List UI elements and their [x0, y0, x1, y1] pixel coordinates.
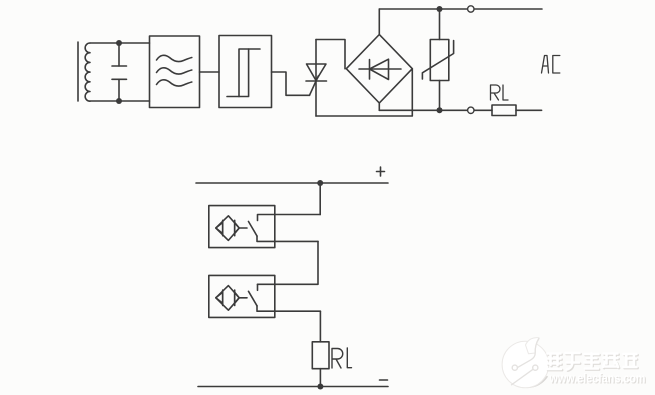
sensor S1 box [209, 206, 275, 248]
wire coil top to filter [90, 42, 150, 44]
junction top rail varistor [437, 6, 443, 12]
terminal top [468, 6, 474, 12]
watermark chinese text [547, 353, 637, 370]
load resistor RL bottom [312, 342, 329, 369]
transformer secondary coil L1 [85, 43, 90, 101]
gate lead [310, 76, 319, 95]
schmitt trigger block U2 [219, 36, 272, 108]
hysteresis symbol [239, 49, 260, 97]
junction node bottom [116, 98, 122, 104]
capacitor C1 [118, 43, 120, 66]
wire sensor2 to resistor [319, 311, 321, 342]
junction bottom rail varistor [437, 107, 443, 113]
wire schmitt to gate [272, 72, 310, 95]
transformer core bar [77, 42, 79, 101]
wire thyristor cathode to bridge right vertex [316, 69, 412, 116]
varistor RV [439, 9, 441, 40]
sensor S2 switch [239, 297, 247, 299]
cathode lead [315, 81, 317, 116]
plus rail [196, 182, 388, 184]
junction node top [116, 40, 122, 46]
label AC [542, 56, 560, 74]
minus sign [380, 379, 388, 381]
thyristor V1 [315, 40, 317, 82]
junction minus rail [317, 384, 323, 390]
label RL bottom [332, 348, 352, 368]
wire filter to schmitt [200, 71, 220, 73]
wire coil bottom to filter [90, 100, 150, 102]
watermark logo [502, 338, 549, 388]
filter block U1 [150, 36, 200, 108]
wire sensor1 to sensor2 [258, 241, 319, 284]
sensor S2 diamond [216, 286, 239, 311]
bridge rectifier B1 [346, 35, 412, 104]
sensor S1 diamond [216, 216, 239, 241]
wire rail to sensor1 [319, 183, 321, 215]
wire thyristor anode to bridge left vertex [316, 40, 345, 69]
filter wave 3 [157, 80, 192, 86]
svg-text:www.elecfans.com: www.elecfans.com [549, 372, 646, 386]
label RL top [491, 85, 509, 100]
wire RL to end [516, 109, 542, 111]
sensor S1 switch [239, 227, 247, 229]
bridge diode symbol [359, 68, 401, 70]
sensor S2 box [209, 275, 275, 317]
watermark text shadow [548, 354, 638, 371]
top rail [379, 8, 542, 10]
wire resistor to minus rail [319, 369, 321, 387]
junction plus rail [317, 180, 323, 186]
wire bridge bottom vertex to bottom rail [378, 103, 380, 110]
bottom rail left part [379, 109, 492, 111]
load resistor RL top [492, 105, 516, 116]
terminal bottom [468, 107, 474, 113]
wire bridge top vertex to top rail [378, 9, 380, 35]
filter wave 1 [157, 55, 192, 61]
minus rail [198, 386, 388, 388]
plus sign [377, 167, 385, 176]
filter wave 2 [157, 68, 192, 74]
